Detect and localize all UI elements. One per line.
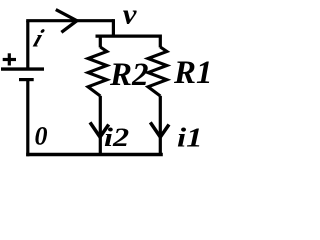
- wire R2 bottom segment: [99, 96, 102, 155]
- battery V source: long positive plate: [1, 67, 44, 70]
- wire R1 top stub: [159, 35, 162, 48]
- label i1: [177, 122, 203, 152]
- resistor R1 zigzag: [148, 47, 167, 96]
- resistor R2 zigzag: [88, 47, 107, 96]
- battery plus sign: [3, 53, 16, 65]
- svg-text:i2: i2: [104, 124, 129, 152]
- current arrow i1 (points down): [150, 122, 169, 137]
- wire top-left vertical (battery + to top-left corner): [26, 21, 29, 68]
- svg-text:R2: R2: [109, 57, 149, 93]
- battery V source: short negative plate: [19, 78, 34, 81]
- current arrow i (points right on top wire): [56, 10, 77, 33]
- wire top bar joining R2 and R1 branches: [96, 34, 162, 37]
- wire R2 top stub: [99, 35, 102, 48]
- wire top-right drop to node v: [112, 19, 115, 36]
- svg-text:0: 0: [35, 122, 48, 151]
- wire bottom-left vertical (battery - to bottom-left corner): [26, 80, 29, 157]
- wire R1 bottom segment: [159, 96, 162, 155]
- wire top horizontal: [26, 19, 113, 22]
- current arrow i2 (points down): [90, 122, 109, 137]
- label v: [123, 0, 138, 30]
- label i2: [104, 124, 129, 152]
- svg-text:v: v: [123, 0, 138, 30]
- svg-text:i1: i1: [177, 122, 203, 152]
- wire bottom horizontal: [26, 153, 163, 157]
- svg-text:R1: R1: [173, 55, 211, 91]
